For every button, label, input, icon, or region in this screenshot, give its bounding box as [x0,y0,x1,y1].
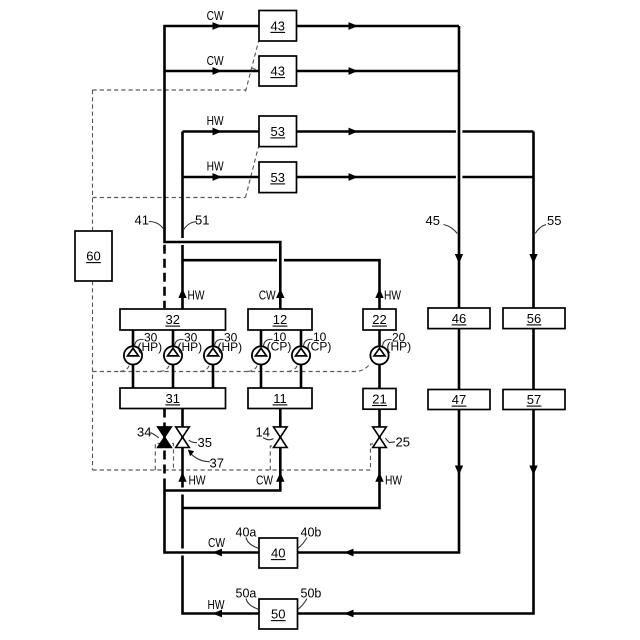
arrow HW line2 right [349,173,359,181]
wire pump column 22-21 [378,330,381,388]
label 40b with leader [298,526,322,549]
controller 60 [75,231,112,281]
label 40a with leader [236,526,259,549]
unit 40 [259,538,298,568]
svg-text:(HP): (HP) [387,340,412,354]
svg-text:40a: 40a [236,526,257,540]
label 30 (HP) pump c [215,330,243,354]
arrow CW out of unit 12 (up) [276,289,284,299]
unit 53 lower [259,162,297,193]
arrow HW return out of unit 50 (left) [213,610,223,618]
svg-text:HW: HW [189,473,206,487]
label 51 with leader [184,213,210,230]
unit 50 [259,599,298,629]
control outline around valve 34 [155,444,173,471]
arrow HW into valve 35 (up) [178,472,186,482]
wire CW line 1 right segment to riser 45 [297,25,460,28]
control branch to pump CP2 [288,365,298,372]
wire dashed pipe 41 upper (into unit 32) [163,245,166,308]
arrow CW line2 left [213,67,223,75]
svg-text:53: 53 [271,170,285,185]
wire unit 21 to valve 25 [378,409,381,448]
control branch to valve 14 [270,446,275,470]
control line from controller 60 upper vertical [92,90,94,231]
wire HW supply line 1 left segment [183,130,260,133]
wire riser 45 down to CW return into unit 40 [298,26,460,553]
wire CW line 2 right segment [297,70,460,73]
label 30 (HP) pump a [135,330,163,354]
svg-text:43: 43 [271,19,285,34]
pump 30 HP b [164,346,182,364]
wire riser 55 down to HW return into unit 50 [298,132,534,614]
wire unit 31 to valve 35 down to HW return corner (breaks at crossings) [183,409,260,614]
svg-text:(HP): (HP) [218,340,243,354]
svg-text:CW: CW [208,536,225,550]
unit 43 upper [259,11,297,42]
svg-text:50b: 50b [301,587,322,601]
svg-text:50: 50 [271,607,285,622]
control line branch to unit 43 lower [252,68,259,71]
valve 34 (closed) [158,427,172,448]
label 34 with leader [137,425,159,440]
wire dashed pipe 41 lower (unit 31 through valve 34) [163,409,166,487]
pump 30 HP a [124,346,142,364]
label 50a with leader [236,587,259,610]
label 25 with leader [385,434,410,449]
arrow CW into valve 14 (up) [276,472,284,482]
unit 22 [363,309,396,330]
wire pump column 32-31 a [132,330,135,388]
control line to pumps [93,364,370,371]
wire HW drop into unit 32 [181,260,184,309]
svg-text:HW: HW [207,114,224,128]
svg-text:32: 32 [166,312,180,327]
control line diagonal to unit 43 upper [246,42,259,92]
wire pump column 12-11 a [260,330,263,388]
control line from controller 60 lower vertical [92,281,94,470]
arrow CW return into unit 40 (left) [344,549,354,557]
svg-text:25: 25 [396,434,410,449]
svg-text:37: 37 [210,455,224,470]
control branch to pump HP1 [120,365,130,372]
svg-text:14: 14 [256,425,270,440]
unit 21 [363,389,396,410]
control line diagonal to unit 53 upper [246,147,259,197]
svg-text:55: 55 [547,213,561,228]
arrow HW out of unit 32 (up) [178,289,186,299]
svg-text:50a: 50a [236,587,257,601]
unit 31 [120,388,226,409]
svg-text:21: 21 [372,392,386,407]
wire HW riser 51 upper part [181,132,184,239]
svg-text:HW: HW [384,288,401,302]
label 37 with arrow leader [188,450,224,471]
svg-text:51: 51 [195,213,209,228]
pump 10 CP b [292,346,310,364]
unit 43 lower [259,56,297,86]
arrow CW line1 left [213,22,223,30]
svg-text:56: 56 [527,311,541,326]
arrow CW return out of unit 40 (left) [213,549,223,557]
unit 57 [503,390,565,410]
wire pump column 32-31 c [212,330,215,388]
valve 14 [274,427,288,448]
label 45 with leader [426,213,458,234]
svg-text:CW: CW [259,288,276,302]
label 50b with leader [298,587,322,610]
control branch to pump HP2 [160,365,170,372]
svg-text:CW: CW [207,9,224,23]
wire HW header 51 right part to unit 22 [284,260,380,309]
control branch to pump HP3 [200,365,210,372]
wire pump column 32-31 b [172,330,175,388]
valve 35 [176,427,190,448]
arrow HW line1 right [349,128,359,136]
svg-text:HW: HW [208,598,225,612]
svg-text:57: 57 [527,392,541,407]
arrow CW line2 right [349,67,359,75]
label 41 with leader [135,213,164,229]
svg-text:40b: 40b [301,526,322,540]
svg-text:HW: HW [188,288,205,302]
unit 56 [503,308,565,329]
unit 11 [248,388,312,409]
label 10 (CP) pump a [264,330,292,354]
pump 20 HP [370,346,388,364]
wire HW line 1 right segment (break at riser 45) [297,130,534,133]
label 35 with leader [189,435,212,450]
arrow HW return into unit 50 (left) [344,610,354,618]
unit 46 [428,308,490,329]
svg-text:11: 11 [273,391,287,406]
arrow CW line1 right [349,22,359,30]
pump 10 CP a [252,346,270,364]
control line branch to HW units 53 [93,197,246,199]
pump 30 HP c [204,346,222,364]
svg-text:43: 43 [271,64,285,79]
svg-text:34: 34 [137,425,151,440]
svg-text:46: 46 [452,311,466,326]
svg-text:41: 41 [135,213,149,228]
arrow riser 55 upper (down) [529,254,537,264]
svg-text:53: 53 [271,124,285,139]
svg-text:35: 35 [198,435,212,450]
svg-text:60: 60 [86,249,100,264]
wire HW connector header to valve 25 [183,448,380,508]
svg-text:HW: HW [207,160,224,174]
unit 12 [248,309,312,330]
arrow HW out of unit 22 (up) [375,289,383,299]
svg-text:40: 40 [271,546,285,561]
arrow HW line2 left [213,173,223,181]
svg-text:CW: CW [256,473,273,487]
svg-text:22: 22 [372,312,386,327]
control branch to pump CP1 [248,365,258,372]
wire HW riser 51 lower part with header corner [183,245,278,260]
label 14 with leader [256,425,274,440]
wire HW supply line 2 left segment [183,176,260,179]
label 30 (HP) pump b [175,330,203,354]
svg-text:(CP): (CP) [307,340,332,354]
svg-text:(HP): (HP) [138,340,163,354]
wire unit 11 to valve 14 and CW connector header [165,409,281,491]
unit 32 [120,309,226,330]
control line branch to unit 53 lower [252,177,259,178]
wire CW supply upper line 2 left segment [165,70,260,73]
label 55 with leader [535,213,561,234]
arrow HW into valve 25 (up) [375,472,383,482]
arrow riser 55 lower (down) [529,466,537,476]
wire HW line 2 right segment (break at riser 45) [297,176,534,179]
svg-text:HW: HW [385,473,402,487]
label 10 (CP) pump b [304,330,332,354]
svg-text:CW: CW [207,54,224,68]
valve 25 [373,427,387,448]
unit 47 [428,390,490,410]
svg-text:47: 47 [452,392,466,407]
svg-text:31: 31 [166,391,180,406]
wire CW supply 41: top line, left riser, cross header, drop to unit 12 [165,26,281,309]
wire pump column 12-11 b [300,330,303,388]
svg-text:(HP): (HP) [178,340,203,354]
wire CW return left riser to unit 40 [165,486,260,553]
unit 53 upper [259,116,297,147]
svg-text:12: 12 [273,312,287,327]
svg-text:(CP): (CP) [267,340,292,354]
control line to valves [93,444,376,470]
svg-text:45: 45 [426,213,440,228]
label 20 (HP) pump [383,330,412,353]
arrow riser 45 lower (down) [455,466,463,476]
arrow riser 45 upper (down) [455,254,463,264]
arrow HW line1 left [213,128,223,136]
control line branch to CW units 43 [93,89,246,91]
